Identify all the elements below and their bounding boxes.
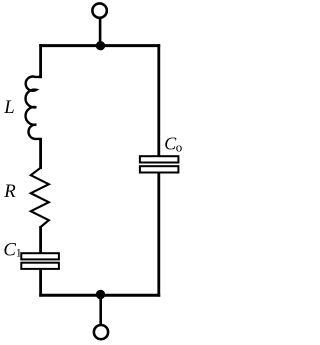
svg-text:1: 1 [16, 248, 22, 260]
wire (right branch, top rail to Co) [157, 44, 160, 157]
wire (top rail) [39, 44, 160, 47]
label Co [164, 134, 182, 155]
wire (bottom rail) [39, 294, 160, 297]
capacitor C1 (top plate) [21, 253, 59, 259]
svg-text:C: C [3, 239, 16, 260]
wire (top stub from terminal T1 to top node) [99, 18, 102, 46]
capacitor Co (bottom plate) [140, 166, 179, 172]
resistor R (zigzag) [31, 168, 49, 227]
wire (left branch, inductor to resistor) [39, 138, 42, 169]
terminal T2 (bottom open circle) [94, 325, 108, 339]
wire (left branch, resistor to C1) [39, 226, 42, 255]
wire (bottom stub from bottom node to terminal T2) [99, 295, 102, 326]
wire (left branch, C1 to bottom rail) [39, 268, 42, 297]
wire (left branch, top rail to inductor) [39, 44, 42, 78]
inductor L (coil) [26, 77, 41, 139]
wire (right branch, Co to bottom rail) [157, 172, 160, 297]
label C1 [3, 239, 22, 260]
svg-text:o: o [176, 139, 183, 154]
junction dot (bottom node) [96, 290, 105, 299]
svg-text:L: L [3, 97, 14, 118]
capacitor Co (top plate) [140, 156, 179, 162]
capacitor C1 (bottom plate) [21, 263, 59, 269]
junction dot (top node) [96, 41, 105, 50]
svg-text:R: R [3, 181, 16, 202]
terminal T1 (top open circle) [92, 3, 106, 17]
